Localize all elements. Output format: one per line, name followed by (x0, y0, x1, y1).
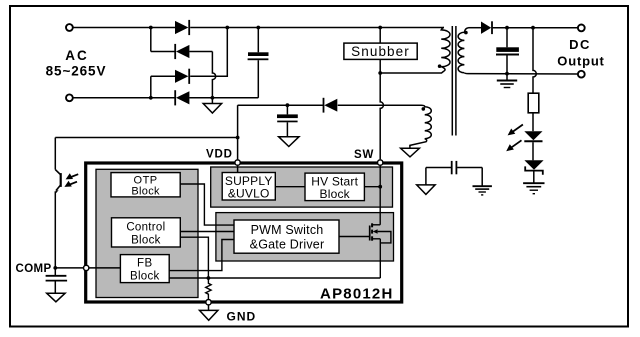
wire D2 branch vertical (150, 28, 152, 52)
ground Y-cap secondary side (earth) (473, 185, 492, 187)
svg-text:Snubber: Snubber (351, 44, 410, 59)
FB Block box (120, 255, 169, 283)
transistor Q2 power MOSFET (369, 226, 371, 241)
wire D3 branch vertical (150, 76, 152, 98)
DC output terminal top (578, 25, 585, 32)
diode D5 VDD (323, 98, 325, 113)
wire output rail (493, 27, 578, 29)
primary bottom lead (380, 67, 445, 73)
wire snubber top (379, 28, 381, 44)
opto LED arrows (513, 125, 523, 132)
HV Start Block box (305, 173, 364, 201)
phototransistor light arrows (69, 174, 78, 177)
svg-text:VDD: VDD (206, 149, 233, 161)
SUPPLY UVLO box (222, 173, 275, 201)
svg-text:Block: Block (130, 270, 160, 282)
svg-text:Output: Output (557, 54, 604, 69)
diode D3 bridge (175, 70, 188, 83)
wire top rail to transformer (190, 27, 444, 29)
node output cap (505, 26, 509, 30)
wire SW vertical with hop over VDD line (380, 73, 383, 159)
svg-text:AC: AC (65, 48, 89, 63)
pin COMP circle (84, 265, 89, 270)
wire VDD line (238, 104, 324, 106)
wire Control to PWM (180, 231, 234, 233)
op-amp U1 AP8012H outline (86, 163, 402, 302)
wire snubber bottom to SW node (379, 59, 381, 73)
wire D2 anode to negative riser (189, 51, 212, 53)
node top rail / snubber (378, 26, 382, 30)
ground COMP cap (47, 293, 65, 302)
secondary bottom lead (464, 72, 468, 75)
svg-text:Block: Block (320, 187, 351, 201)
transformer core (451, 26, 453, 136)
wire diode to aux (338, 104, 422, 106)
svg-text:Control: Control (126, 221, 165, 233)
node secondary bottom / cap (505, 72, 509, 76)
node bottom rail / D2 riser / ground (149, 96, 153, 100)
svg-text:Block: Block (131, 186, 160, 198)
svg-text:DC: DC (569, 37, 591, 52)
wire Y-cap right leg (481, 168, 483, 186)
capacitor C5 Y-cap (426, 167, 451, 169)
wire gate drive (339, 236, 370, 238)
wire zener to ground (533, 171, 535, 183)
node COMP (53, 266, 57, 270)
ground aux winding (401, 148, 420, 157)
node top rail / bulk cap (256, 26, 260, 30)
Control Block box (112, 218, 181, 247)
wire COMP to pin (55, 267, 83, 269)
wire D3 cathode riser to top rail (190, 28, 227, 77)
wire negative riser with hop over D3 row (212, 52, 215, 98)
wire SW to drain (379, 166, 381, 225)
primary phase dot (438, 64, 442, 68)
diode D6 output rectifier (481, 22, 491, 34)
svg-text:85~265V: 85~265V (46, 64, 107, 79)
node sense (207, 276, 211, 280)
node primary bottom / SW (378, 71, 382, 75)
aux phase dot (422, 107, 426, 111)
node top rail / D3 riser (225, 26, 229, 30)
wire to D2 (151, 51, 175, 53)
gray region middle (216, 213, 394, 261)
capacitor C6 COMP (54, 268, 56, 276)
capacitor C3 VDD (286, 105, 288, 114)
node top rail / D2 branch (149, 26, 153, 30)
svg-text:&Gate Driver: &Gate Driver (250, 238, 325, 252)
wire emitter to COMP (54, 191, 56, 268)
ground bridge negative (211, 98, 213, 104)
diode D4 bridge bottom (174, 90, 176, 105)
pin GND (206, 300, 211, 305)
svg-text:SW: SW (354, 149, 374, 161)
wire VDD down to pin (237, 105, 239, 159)
transformer T1 primary winding (441, 28, 450, 67)
OTP Block box (111, 173, 180, 197)
node HV/SW (378, 185, 382, 189)
wire secondary bottom rail (468, 73, 578, 75)
AC input terminal bottom (66, 94, 73, 101)
PWM Switch Gate Driver box (234, 220, 339, 253)
DC output terminal bottom (578, 71, 585, 78)
wire HV Start to SW net (364, 186, 380, 188)
opto LED D7 (524, 131, 542, 140)
snubber box (344, 43, 417, 59)
ground GND pin (200, 310, 218, 320)
aux bottom lead (410, 139, 427, 149)
capacitor C4 output (506, 28, 508, 48)
node VDD cap (286, 103, 290, 107)
gray region top (211, 167, 393, 207)
ground zener (earth) (523, 182, 544, 184)
svg-text:GND: GND (227, 309, 257, 323)
resistor R2 sense zigzag (206, 278, 211, 299)
wire SUPPLY to HV Start (275, 186, 305, 188)
wire OTP to PWM (180, 184, 234, 225)
wire to D3 (151, 75, 175, 77)
transformer secondary winding (458, 28, 468, 73)
wire top AC rail (73, 27, 175, 29)
svg-text:AP8012H: AP8012H (320, 286, 393, 303)
svg-text:&UVLO: &UVLO (228, 187, 270, 201)
ground VDD cap (279, 137, 299, 147)
wire bottom rail to bulk cap (189, 97, 258, 99)
wire source sense line (169, 277, 380, 279)
wire Y-cap left leg (425, 168, 427, 185)
wire bottom AC rail (73, 97, 175, 99)
node opto collector / VDD (236, 136, 240, 140)
wire secondary top to diode (469, 27, 482, 29)
gray region left (96, 169, 198, 297)
wire divider top with hop over bottom rail (533, 28, 536, 94)
wire FB to PWM (169, 240, 234, 271)
wire opto collector line (55, 137, 237, 139)
svg-text:PWM Switch: PWM Switch (251, 223, 324, 237)
ground Y-cap primary side (417, 185, 435, 195)
wire LED to zener (532, 142, 534, 160)
ground secondary (earth) (506, 74, 508, 81)
node divider tap (531, 26, 535, 30)
resistor R1 feedback (528, 93, 539, 113)
secondary phase dot (464, 31, 468, 35)
svg-text:FB: FB (137, 258, 153, 270)
diode D1 bridge top (175, 21, 188, 34)
transformer aux winding (422, 105, 432, 139)
zener D8 (524, 160, 543, 169)
svg-text:COMP: COMP (16, 263, 52, 275)
wire resistor to LED (532, 113, 534, 131)
wire Control to sense node (180, 237, 208, 278)
capacitor C1 bulk (257, 28, 259, 53)
svg-text:Block: Block (131, 234, 161, 246)
phototransistor Q1 (54, 138, 56, 170)
AC input terminal top (66, 24, 73, 31)
diode D2 bridge (174, 44, 176, 59)
